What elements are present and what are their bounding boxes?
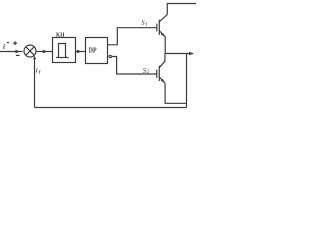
wire: DP lower output to S2 gate [112,57,157,75]
wire: DP upper output to S1 gate [108,28,157,45]
wire: output node horizontal [165,53,193,55]
symbol: hysteresis characteristic inside KH [56,44,69,58]
arrowhead: S1 emitter [161,33,165,37]
wire: input reference into summing junction [0,51,23,53]
summing junction [24,45,36,57]
arrowhead: input into summing junction [16,50,21,53]
svg-text:i: i [3,43,5,51]
arrowhead: into drive circuit [77,50,82,53]
block: drive circuit DP [86,38,108,64]
svg-text:DP: DP [89,46,97,54]
arrowhead: feedback up into summing junction [33,56,36,59]
wire: feedback vertical into summing junction [34,56,36,107]
wire: bottom feedback rail [35,107,187,109]
block: hysteresis comparator KH [53,38,76,63]
label S2 [143,68,150,75]
arrowhead: load current output [189,52,194,55]
label: feedback current i_f [36,67,41,74]
minus sign at feedback input [16,54,20,56]
transistor S2 [157,54,165,84]
label S1 [141,20,148,27]
inverter bubble on DP lower output [109,55,111,57]
label: reference current i* [3,42,9,51]
svg-text:KH: KH [56,31,64,38]
arrowhead: into hysteresis comparator [43,50,48,53]
arrowhead: S2 emitter [161,79,165,83]
svg-text:1: 1 [145,22,148,27]
wire: summing junction to hysteresis comparator [37,51,52,53]
wire: hysteresis comparator to drive circuit [76,51,86,53]
wire: S2 emitter to return rail [165,83,186,103]
svg-text:i: i [36,67,38,74]
wire: S1 collector to positive rail [167,4,196,15]
svg-text:f: f [39,69,41,74]
wire: output branch down to bottom rail [186,54,188,108]
plus sign at summing input [13,41,17,45]
transistor S1 [157,15,168,54]
